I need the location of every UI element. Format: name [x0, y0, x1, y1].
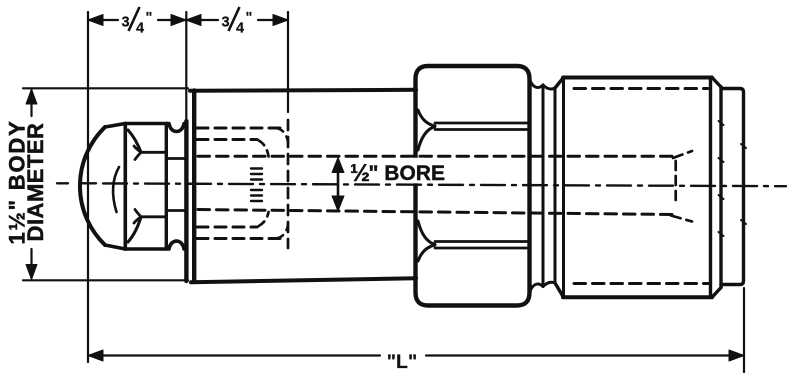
centerline [57, 182, 96, 184]
cap flange face [184, 121, 188, 281]
cap facet line A top with flare [134, 146, 165, 160]
middle hex facet double line top [435, 123, 527, 130]
middle hex nut outline [416, 66, 530, 306]
arrow right seg1 [171, 15, 186, 26]
pilot outline [721, 89, 744, 285]
right body end face circle [709, 78, 712, 298]
svg-text:" BORE: " BORE [369, 162, 445, 185]
extension line left tip plane [87, 12, 89, 362]
body1 top edge [190, 90, 416, 91]
facet flare arcs top-left [418, 110, 435, 150]
svg-text:3: 3 [122, 15, 130, 31]
washer disc right edge [554, 88, 557, 283]
svg-text:4: 4 [236, 21, 244, 37]
svg-text:½: ½ [350, 160, 370, 187]
top dimension line segment 1 [88, 19, 186, 21]
dome-hex boundary arc bottom [128, 217, 141, 242]
arrow up body diameter [26, 89, 37, 104]
right body thread dashed bottom [574, 282, 708, 285]
extension line x=186 [185, 12, 187, 122]
text mask over hex edge [410, 158, 424, 184]
cap facet circle [165, 124, 168, 250]
cap hex left edge circle [124, 124, 128, 250]
internal step dashed vertical [674, 161, 677, 205]
arrow left seg1 [88, 15, 103, 26]
svg-text:": " [246, 10, 253, 26]
right body thread dashed top [574, 87, 708, 90]
washer disc bottom edge [543, 282, 555, 286]
body1 left face [192, 91, 196, 282]
cap facet line A bottom with flare [134, 210, 165, 224]
label 3/4 first [122, 7, 153, 37]
body1 internal thread minor dashed [197, 140, 257, 228]
relief groove bottom [530, 284, 544, 292]
arrow right L [729, 350, 744, 361]
pilot edge tick marks [719, 121, 747, 236]
bottom L dimension line [88, 354, 744, 356]
right body chamfer bottom diagonal [555, 283, 564, 297]
extension line right end [743, 288, 745, 372]
washer disc top edge [543, 85, 555, 89]
svg-text:DIAMETER: DIAMETER [23, 123, 48, 242]
facet flare arcs bottom-left [418, 221, 435, 261]
arrow left L [88, 350, 103, 361]
body diameter extension lines [23, 88, 188, 280]
bore hidden line top [198, 155, 672, 158]
body1 internal thread major dashed [197, 128, 281, 239]
extension line x=288 [287, 12, 289, 112]
right body top-right chamfer [712, 78, 721, 88]
top dimension line segment 2 [186, 19, 288, 21]
pilot left edge [719, 87, 722, 288]
right body top edge [563, 76, 712, 80]
svg-text:"L": "L" [387, 351, 417, 373]
label 3/4 second [222, 7, 253, 37]
svg-text:": " [146, 10, 153, 26]
bore dimension arrow [337, 160, 340, 208]
right body chamfer circle line [562, 78, 565, 298]
internal cone dashed bottom [671, 216, 692, 222]
counterbore step dashed vertical [287, 120, 290, 248]
body1 bottom edge [191, 278, 416, 282]
thread relief tick marks [251, 169, 262, 202]
right body bottom edge [563, 295, 712, 299]
arrow down body diameter [26, 265, 37, 280]
arrow left seg2 [186, 15, 201, 26]
body diameter dimension line [30, 90, 32, 278]
washer disc left edge [542, 85, 545, 287]
svg-text:4: 4 [136, 21, 144, 37]
dome-hex boundary arc top [128, 130, 141, 152]
counterbore corner dashed arcs [276, 128, 288, 143]
cap hex top edge with undercut notch [125, 124, 186, 132]
right body chamfer top diagonal [555, 78, 564, 89]
thread runout dashed arcs [258, 140, 269, 157]
cap facet line B bottom [167, 209, 185, 212]
dome-to-hex slopes [105, 124, 125, 250]
internal cone dashed top [673, 151, 692, 158]
dome cap nut: dome arc [80, 127, 105, 245]
svg-text:3: 3 [222, 15, 230, 31]
arrow right seg2 [273, 15, 288, 26]
bore hidden line bottom [198, 210, 672, 215]
relief groove top [530, 79, 544, 87]
middle hex facet double line bottom [435, 242, 527, 249]
cap facet line B top [167, 157, 185, 160]
right body bottom-right chamfer [712, 288, 721, 298]
cap hex bottom edge with undercut notch [125, 241, 186, 249]
dome inner arc [113, 167, 119, 212]
